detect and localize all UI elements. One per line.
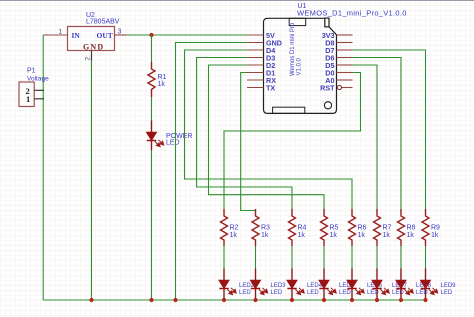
- wire 5V net U2 OUT to U1 5V: [127, 34, 248, 36]
- R5 labels: [330, 225, 339, 240]
- wire D6 net to R8: [353, 58, 402, 213]
- wire R7 to LED7: [376, 246, 378, 269]
- wire D0 net to R2: [224, 73, 361, 213]
- svg-text:1k: 1k: [330, 232, 338, 239]
- svg-text:1k: 1k: [431, 232, 439, 239]
- R4 labels: [298, 225, 307, 240]
- svg-text:1k: 1k: [158, 81, 166, 88]
- svg-text:R4: R4: [298, 225, 307, 232]
- wire D3 net to R4: [197, 58, 292, 213]
- LED LED8: [396, 269, 413, 301]
- svg-text:LED: LED: [416, 290, 428, 296]
- svg-text:R8: R8: [407, 225, 416, 232]
- LED8 labels: [416, 283, 432, 296]
- R1 labels: [158, 74, 167, 88]
- R2 labels: [230, 225, 239, 240]
- svg-text:1k: 1k: [298, 232, 306, 239]
- LED LED6: [347, 269, 364, 301]
- svg-text:R2: R2: [230, 225, 239, 232]
- svg-text:1k: 1k: [230, 232, 238, 239]
- junction POWER LED on ground bus: [149, 298, 153, 302]
- LED5 labels: [339, 283, 355, 296]
- wire D1 net to R3: [241, 73, 256, 214]
- wire D5 net to R7: [353, 65, 378, 212]
- svg-text:3: 3: [118, 29, 122, 36]
- resistor R6: [349, 209, 356, 246]
- svg-text:R3: R3: [261, 225, 270, 232]
- LED2 labels: [239, 283, 255, 296]
- svg-text:V1.0.0: V1.0.0: [297, 57, 303, 75]
- U1 right pin names: [320, 31, 335, 93]
- U2 pin 3: [115, 29, 127, 36]
- junction LED3 on ground bus: [253, 298, 257, 302]
- junction at R1 top: [149, 33, 153, 37]
- svg-text:LED3: LED3: [271, 283, 287, 289]
- svg-text:LED: LED: [339, 290, 351, 296]
- MCU U1 WEMOS D1 mini Pro: [264, 18, 337, 113]
- wire POWER LED to ground bus: [151, 150, 153, 300]
- R8 labels: [407, 225, 416, 240]
- LED LED7: [372, 269, 389, 301]
- svg-text:R5: R5: [330, 225, 339, 232]
- svg-text:P1: P1: [27, 68, 36, 75]
- junction U2 GND on ground bus: [89, 298, 93, 302]
- resistor R9: [422, 209, 429, 246]
- svg-text:IN: IN: [72, 31, 81, 40]
- POWER LED: [147, 121, 164, 151]
- svg-text:LED: LED: [239, 290, 251, 296]
- wire D7 net to R9: [353, 50, 426, 212]
- U1 left pin stubs: [247, 35, 264, 88]
- junction LED6 on ground bus: [350, 298, 354, 302]
- junction LED8 on ground bus: [399, 298, 403, 302]
- top window edge line: [0, 0, 474, 1]
- svg-text:LED: LED: [307, 290, 319, 296]
- U2 pin 1: [43, 29, 67, 36]
- wire R8 to LED8: [400, 246, 402, 269]
- svg-text:LED: LED: [392, 290, 404, 296]
- junction LED4 on ground bus: [290, 298, 294, 302]
- svg-text:1: 1: [59, 29, 63, 36]
- junction LED5 on ground bus: [322, 298, 326, 302]
- wire D4 net to R6: [185, 50, 353, 212]
- junction LED7 on ground bus: [375, 298, 379, 302]
- U1 left pin names: [266, 31, 282, 93]
- LED7 labels: [392, 283, 408, 296]
- LED4 labels: [307, 283, 323, 296]
- svg-text:2: 2: [85, 57, 92, 61]
- resistor R2: [221, 209, 228, 246]
- R3 labels: [261, 225, 270, 240]
- svg-text:WEMOS_D1_mini_Pro_V1.0.0: WEMOS_D1_mini_Pro_V1.0.0: [297, 9, 407, 18]
- P1 reference label: [27, 68, 49, 83]
- wire 5V to R1: [151, 35, 153, 62]
- svg-text:1k: 1k: [383, 232, 391, 239]
- resistor R1: [148, 62, 155, 97]
- svg-text:LED: LED: [441, 290, 453, 296]
- R6 labels: [358, 225, 367, 240]
- svg-text:LED: LED: [271, 290, 283, 296]
- regulator U2 L7805ABV: [68, 27, 115, 52]
- wire R2 to LED2: [223, 246, 225, 269]
- U1 reference label: [297, 3, 407, 18]
- U1 RST bubble: [337, 85, 341, 89]
- LED LED5: [319, 269, 336, 301]
- svg-text:R9: R9: [431, 225, 440, 232]
- U1 right pin stubs: [337, 35, 353, 88]
- svg-text:GND: GND: [83, 43, 104, 52]
- svg-text:OUT: OUT: [97, 31, 113, 40]
- wire U2 GND to ground bus: [91, 61, 93, 301]
- wire R6 to LED6: [351, 246, 353, 269]
- LED3 labels: [271, 283, 287, 296]
- U2 reference label: [86, 12, 120, 26]
- ground bus wire: [43, 299, 425, 301]
- POWER LED labels: [166, 133, 192, 147]
- svg-text:1: 1: [26, 94, 30, 104]
- svg-text:1k: 1k: [407, 232, 415, 239]
- wire GND net U1 to ground bus: [176, 43, 248, 301]
- R9 labels: [431, 225, 440, 240]
- svg-text:TX: TX: [266, 84, 275, 93]
- junction U1 GND on ground bus: [173, 298, 177, 302]
- LED6 labels: [367, 283, 383, 296]
- svg-text:Wemos D1 mini Pro: Wemos D1 mini Pro: [290, 22, 296, 76]
- wire D2 net to R5: [209, 65, 325, 212]
- svg-text:Voltage: Voltage: [27, 76, 49, 83]
- wire R4 to LED4: [291, 246, 293, 269]
- svg-text:L7805ABV: L7805ABV: [86, 19, 120, 26]
- svg-text:R7: R7: [383, 225, 392, 232]
- svg-text:1k: 1k: [358, 232, 366, 239]
- U2 pin 2: [85, 51, 92, 61]
- resistor R5: [321, 209, 328, 246]
- LED LED3: [251, 269, 268, 301]
- wire R5 to LED5: [323, 246, 325, 269]
- junction LED2 on ground bus: [222, 298, 226, 302]
- svg-text:R6: R6: [358, 225, 367, 232]
- wire R3 to LED3: [255, 246, 257, 269]
- wire R1 to POWER LED: [151, 97, 153, 121]
- wire VIN vertical from U2 IN down past P1 to ground bus: [42, 35, 44, 300]
- wire R9 to LED9: [425, 246, 427, 269]
- svg-text:RST: RST: [320, 84, 335, 93]
- svg-text:R1: R1: [158, 74, 167, 81]
- LED LED9: [421, 269, 438, 301]
- resistor R8: [398, 209, 405, 246]
- junction LED9 on ground bus: [423, 298, 427, 302]
- svg-text:LED: LED: [166, 140, 180, 147]
- R7 labels: [383, 225, 392, 240]
- LED LED2: [219, 269, 236, 301]
- resistor R4: [289, 209, 296, 246]
- svg-text:LED9: LED9: [441, 283, 457, 289]
- LED9 labels: [441, 283, 457, 296]
- resistor R3: [252, 209, 259, 246]
- connector P1: [19, 82, 44, 107]
- svg-text:1k: 1k: [261, 232, 269, 239]
- resistor R7: [374, 209, 381, 246]
- LED LED4: [287, 269, 304, 301]
